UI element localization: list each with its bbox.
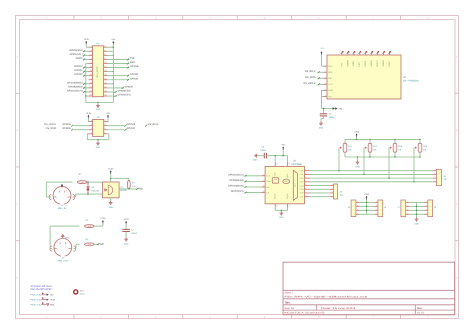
potentiometer RV2 10k [365, 139, 378, 157]
power symbol above U2 pin1 [321, 47, 326, 55]
wire CH0 to J6 [310, 170, 433, 172]
svg-text:+3.3V: +3.3V [86, 112, 92, 115]
svg-text:GPIO17: GPIO17 [74, 65, 83, 68]
note text (blue) [31, 285, 53, 291]
svg-text:Title:: Title: [284, 301, 290, 304]
svg-text:FLT: FLT [340, 62, 343, 66]
resistor R1 220 [77, 173, 87, 184]
svg-text:DIN: DIN [328, 77, 332, 80]
wire +3.3V rail (pots) [345, 137, 420, 140]
svg-text:ROUT: ROUT [376, 60, 379, 67]
svg-text:CH3: CH3 [300, 181, 304, 184]
wire / net label GPIO25 (P1) [108, 85, 134, 89]
svg-text:GPIO24: GPIO24 [130, 77, 139, 80]
wire P1 pin2 to +5V [108, 45, 114, 52]
power +5V (P1 pin2) [111, 38, 115, 45]
op-amp / DAC U2 PCM5102 [327, 55, 419, 99]
wire RV3 wiper to CH2 [388, 139, 395, 179]
svg-text:GPIO7(CE1): GPIO7(CE1) [231, 190, 244, 193]
svg-text:+3.3V: +3.3V [108, 168, 114, 171]
svg-text:DGND: DGND [286, 193, 289, 199]
potentiometer RV4 10k [415, 139, 428, 157]
wire / net label GPIO9(MISO) (P1) [68, 85, 88, 89]
svg-text:+3.3V: +3.3V [50, 298, 56, 301]
svg-text:XSMT: XSMT [352, 60, 355, 67]
wire CH6 to J3 [310, 192, 330, 194]
svg-text:4: 4 [56, 196, 57, 199]
resistor R3 220 [85, 238, 95, 246]
power +3.3V (P1 pin1) [83, 38, 89, 45]
U2 top pins (no-connect) [340, 51, 391, 66]
svg-text:5: 5 [68, 248, 69, 251]
svg-text:Date: 15 nov 2013: Date: 15 nov 2013 [321, 307, 356, 310]
power +3v3 (J4/J5) [364, 193, 369, 200]
wire MIDI OUT to R2 [50, 226, 79, 249]
svg-text:GPIO31: GPIO31 [127, 127, 136, 130]
svg-text:Sheet: /: Sheet: / [284, 291, 293, 294]
svg-text:RXD: RXD [130, 61, 135, 64]
svg-text:VIN: VIN [328, 95, 332, 98]
wire / net label GPIO8(CE0) (P1) [108, 89, 131, 93]
svg-text:I2S_DATA: I2S_DATA [305, 76, 316, 79]
svg-text:CH7: CH7 [300, 195, 304, 198]
power flag PWR_FLAG +5V [31, 293, 55, 297]
svg-text:GND: GND [355, 165, 360, 168]
ground below C1 [124, 238, 129, 246]
svg-text:100nF: 100nF [260, 149, 267, 152]
svg-text:10k: 10k [373, 149, 376, 152]
wire MIDI IN bottom [73, 193, 103, 197]
svg-text:GPIO9(MISO): GPIO9(MISO) [229, 179, 244, 182]
ground below opto [108, 201, 113, 209]
svg-text:CLK: CLK [266, 175, 271, 178]
svg-text:GPIO29: GPIO29 [127, 123, 136, 126]
svg-text:CH6: CH6 [300, 192, 304, 195]
wire C1 to ground [125, 232, 127, 238]
wire / net label GPIO0(SDA) (P1) [69, 49, 88, 53]
svg-text:+3.3V: +3.3V [123, 218, 129, 221]
U3 left pins [261, 173, 271, 194]
wire / net label GPIO22 (P1) [74, 73, 88, 77]
svg-text:SCLK: SCLK [364, 60, 367, 66]
svg-text:GND: GND [50, 303, 55, 306]
wire R2 to +3.3V [94, 224, 103, 226]
wire CH7 to J3 [310, 196, 330, 198]
svg-text:GPIO11(SCLK): GPIO11(SCLK) [228, 173, 244, 176]
svg-text:CH1: CH1 [300, 173, 304, 176]
wire opto output to RXD [119, 188, 143, 191]
ground below P5 [96, 142, 101, 150]
connector P1 RPi GPIO 26-pin header [89, 42, 108, 96]
svg-text:I2S_LRCLK: I2S_LRCLK [44, 123, 57, 126]
svg-text:CH4: CH4 [300, 184, 304, 187]
svg-text:+5V: +5V [281, 144, 285, 147]
svg-text:AGND: AGND [274, 193, 277, 199]
wire MIDI OUT to R3 [74, 244, 80, 248]
ground below P1 [96, 104, 101, 111]
wires J7-J8 [409, 202, 424, 217]
wire / net label GPIO1(SCL) (P1) [70, 53, 89, 57]
svg-text:GPIO7(CE1): GPIO7(CE1) [118, 94, 131, 97]
wire U2 GND/VIN to decoupling [322, 90, 333, 113]
wire / net label GPIO18 (P1) [108, 65, 139, 69]
svg-text:from the RPI GPIO: from the RPI GPIO [31, 288, 52, 291]
svg-text:+5V: +5V [338, 107, 342, 110]
wire CH1 to J6 [310, 173, 433, 175]
net label GPIO9(MISO) (U3) [229, 179, 260, 183]
svg-text:6N138: 6N138 [120, 189, 127, 192]
ground below pot rail [355, 161, 360, 169]
svg-text:+5V: +5V [50, 294, 54, 297]
wire CH4 to J3 [310, 185, 330, 187]
svg-text:GND: GND [124, 243, 129, 246]
wire / net label GPIO24 (P1) [108, 77, 139, 81]
power +3.3V above opto [108, 168, 114, 175]
svg-text:GND: GND [279, 216, 284, 219]
wire / net label GPIO10(MOSI) (P1) [67, 81, 89, 85]
GND bus left of P1 [85, 63, 88, 102]
connector P5 8-pin header [89, 116, 108, 136]
svg-text:100nF: 100nF [131, 232, 138, 235]
svg-text:1: 1 [60, 189, 61, 192]
svg-text:BCK: BCK [328, 71, 333, 74]
mounting hole MK1 [74, 289, 85, 295]
net label GPIO30 / I2S_DATA (P5 pin5) [46, 127, 89, 131]
power +3.3V (pot rail) [354, 131, 359, 138]
wire / net label GPIO21 (P1) [74, 69, 88, 73]
svg-text:GPIO21: GPIO21 [74, 69, 83, 72]
wire U3 supply node [267, 150, 287, 162]
svg-text:GND: GND [328, 89, 333, 92]
net label GPIO11(SCLK) (U3) [228, 173, 261, 177]
svg-text:GPIO0(SDA): GPIO0(SDA) [69, 49, 83, 52]
svg-text:TXD: TXD [130, 57, 135, 60]
U3 right pins CH0-CH7 [300, 168, 310, 198]
connector J7 [397, 200, 409, 217]
ground below J7/J8 [414, 218, 419, 226]
ground above MIDI OUT [61, 234, 70, 239]
svg-text:PWR_FLAG: PWR_FLAG [31, 298, 43, 301]
wire RV2 wiper to CH1 [363, 139, 370, 175]
wire / net label TXD (P1) [108, 57, 135, 61]
net label I2S_DATA (U2) [305, 76, 323, 80]
svg-text:SPI: SPI [340, 194, 344, 197]
svg-text:+5V: +5V [111, 38, 115, 41]
wire RV1 wiper to CH0 [338, 148, 339, 172]
svg-text:GPIO10(MOSI): GPIO10(MOSI) [67, 81, 83, 84]
svg-text:4: 4 [57, 248, 58, 251]
wire / net label GPIO7(CE1) (P1) [108, 94, 131, 98]
wire / net label RXD (P1) [108, 61, 135, 65]
svg-text:I2S - PCM5102: I2S - PCM5102 [403, 80, 419, 83]
wire GND rail (pots) [345, 156, 420, 160]
wire opto to ground [110, 198, 112, 201]
svg-text:GND: GND [96, 108, 101, 111]
svg-text:GPIO25: GPIO25 [125, 85, 134, 88]
wire P5 pin1 to +3.3V [87, 119, 89, 122]
svg-text:CH2: CH2 [300, 177, 304, 180]
U2 left pins [323, 64, 334, 98]
svg-text:Din: Din [266, 186, 269, 189]
svg-text:LCK: LCK [328, 83, 333, 86]
svg-text:GND: GND [253, 159, 258, 162]
svg-text:GPIO8(CE0): GPIO8(CE0) [118, 89, 131, 92]
net label GPIO7(CE1) (U3) [231, 190, 261, 194]
connector J4 [348, 200, 360, 217]
svg-text:GPIO23: GPIO23 [130, 73, 139, 76]
net label GPIO29 / I2S_BCLK (P5 pin4) [108, 123, 159, 127]
wire opto supply node [110, 174, 129, 182]
svg-text:GPIO18: GPIO18 [130, 65, 139, 68]
capacitor C1 100nF [122, 228, 138, 235]
optocoupler U1 6N138 [102, 182, 127, 198]
connector J3 [330, 183, 343, 199]
wire R1 to opto [87, 181, 102, 182]
svg-text:220: 220 [88, 243, 91, 246]
capacitor C2 100nF [320, 113, 336, 120]
svg-text:AGND: AGND [370, 60, 373, 67]
svg-text:FMT: FMT [358, 61, 361, 66]
power +3.3V (P5 pin1) [86, 112, 92, 119]
svg-text:PWR_FLAG: PWR_FLAG [31, 303, 43, 306]
potentiometer RV3 10k [390, 139, 403, 157]
svg-text:GPIO11(SCLK): GPIO11(SCLK) [67, 89, 83, 92]
svg-text:RXD: RXD [138, 188, 143, 191]
svg-text:GPIO1(SCL): GPIO1(SCL) [70, 53, 83, 56]
svg-text:AGND: AGND [382, 60, 385, 67]
svg-text:RPi_GPIO: RPi_GPIO [96, 66, 99, 77]
svg-text:LOUT: LOUT [388, 60, 391, 66]
U3 bottom pins AGND DGND [274, 193, 290, 207]
ground left of C3 [253, 154, 258, 162]
connector J5 [374, 200, 387, 217]
svg-text:I2S_BCLK: I2S_BCLK [305, 70, 316, 73]
U3 top pins VDD VREF [274, 162, 291, 178]
svg-text:+5V: +5V [106, 112, 110, 115]
wire CH3 to J6 [310, 181, 433, 183]
svg-text:3: 3 [66, 241, 67, 244]
connector J8 [424, 200, 437, 217]
power +5V (P5 pin2) [106, 112, 110, 119]
svg-text:TXD: TXD [100, 243, 105, 246]
svg-text:GND: GND [414, 223, 419, 226]
resistor R4 4.7k [127, 180, 136, 189]
wire RV4 wiper to CH3 [413, 139, 420, 183]
connector J1 MIDI IN DIN-5 [49, 184, 75, 210]
wire P1 pin1 to +3.3V [86, 45, 88, 47]
svg-text:MCP3008: MCP3008 [292, 163, 303, 166]
potentiometer RV1 10k [340, 139, 353, 157]
wire P1 ground loop [86, 102, 114, 104]
power +3.3V (R2) [100, 217, 106, 224]
wire MIDI IN top [46, 182, 72, 197]
IC U3 MCP3008 ADC [265, 160, 304, 204]
svg-text:I2S_LRCLK: I2S_LRCLK [303, 82, 316, 85]
svg-text:GND: GND [108, 206, 113, 209]
wire CH5 to J3 [310, 188, 330, 190]
diode D1 1N4148 [86, 182, 99, 194]
svg-text:GPIO10(MOSI): GPIO10(MOSI) [228, 185, 244, 188]
svg-text:220: 220 [81, 181, 84, 184]
svg-text:GND: GND [96, 146, 101, 149]
connector J6 [433, 168, 448, 185]
svg-text:MIDI_IN: MIDI_IN [58, 207, 66, 210]
wire +3.3V to C1 [125, 225, 127, 229]
wire P5 pin2 to +5V [107, 119, 109, 122]
wire C3 to ground [258, 155, 265, 157]
power +3.3V (C1) [123, 218, 129, 225]
svg-text:GPIO28: GPIO28 [62, 123, 71, 126]
wire / net label GPIO17 (P1) [74, 65, 88, 69]
wire / net label GPIO4 (P1) [76, 57, 89, 61]
svg-text:GPIO30: GPIO30 [62, 127, 71, 130]
svg-text:CH5: CH5 [300, 188, 304, 191]
svg-text:CH0: CH0 [300, 169, 304, 172]
svg-text:100nF: 100nF [329, 116, 336, 119]
svg-text:SCK: SCK [328, 65, 333, 68]
svg-text:10k: 10k [423, 149, 426, 152]
ground below C2 [319, 122, 324, 130]
net label GPIO31 (P5 pin6) [108, 127, 136, 131]
svg-text:GPIO22: GPIO22 [74, 73, 83, 76]
svg-text:GPIO9(MISO): GPIO9(MISO) [68, 85, 83, 88]
wires J4-J5 [360, 200, 375, 215]
svg-text:GND: GND [65, 236, 70, 239]
wire / net label GPIO23 (P1) [108, 73, 139, 77]
power flag PWR_FLAG GND [31, 302, 55, 306]
svg-text:1: 1 [57, 241, 58, 244]
svg-text:220: 220 [88, 225, 91, 228]
capacitor C3 100nF [260, 145, 267, 158]
wire / net label GPIO11(SCLK) (P1) [67, 89, 89, 93]
svg-text:+3.3V: +3.3V [100, 217, 106, 220]
wire C2 to ground [321, 116, 324, 122]
net label GPIO28 / I2S_LRCLK (P5 pin3) [44, 123, 88, 127]
svg-text:GND: GND [319, 126, 324, 129]
svg-text:Rev:: Rev: [417, 307, 422, 310]
wire CH2 to J6 [310, 177, 433, 179]
svg-text:Id: 1/1: Id: 1/1 [417, 312, 424, 315]
svg-text:Size: A4: Size: A4 [284, 307, 294, 310]
resistor R2 220 [85, 219, 95, 228]
power +5V (U3 supply) [281, 144, 285, 151]
svg-text:PWR_FLAG: PWR_FLAG [31, 294, 43, 297]
wire U2 pin1 [322, 55, 323, 66]
wire R3 to TXD [94, 243, 104, 246]
title block [283, 262, 455, 315]
svg-text:GPIO4: GPIO4 [76, 57, 84, 60]
svg-text:DEMP: DEMP [346, 60, 349, 67]
connector J2 MIDI OUT DIN-5 [50, 239, 76, 263]
net label I2S_BCLK (U2) [305, 70, 323, 74]
net label GPIO10(MOSI) (U3) [228, 185, 261, 189]
ground below U3 [279, 212, 284, 219]
svg-text:+3.3V: +3.3V [83, 38, 89, 41]
svg-text:10k: 10k [398, 149, 401, 152]
svg-text:File: RPI--V5--Synth--IOBoard.: File: RPI--V5--Synth--IOBoard.kicad_sch [284, 295, 368, 298]
wire P5 ground loop [87, 134, 109, 142]
svg-text:5: 5 [67, 196, 68, 199]
svg-text:I2S_BCLK: I2S_BCLK [148, 123, 159, 126]
svg-text:KiCad E.D.A. kicad (4.0.5): KiCad E.D.A. kicad (4.0.5) [284, 312, 324, 315]
power flag +5V (U2 supply) [333, 107, 343, 110]
net label I2S_LRCLK (U2) [303, 82, 323, 86]
svg-text:MIDI_OUT: MIDI_OUT [58, 259, 69, 262]
svg-text:Dout: Dout [266, 180, 271, 183]
svg-text:3: 3 [66, 189, 67, 192]
svg-text:1N4148: 1N4148 [91, 189, 99, 192]
svg-text:10k: 10k [348, 149, 351, 152]
wire U3 ground loop [275, 208, 287, 212]
power flag PWR_FLAG +3.3V [31, 297, 56, 301]
GND bus right of P1 [108, 51, 114, 102]
svg-text:I2S_DATA: I2S_DATA [46, 127, 57, 130]
